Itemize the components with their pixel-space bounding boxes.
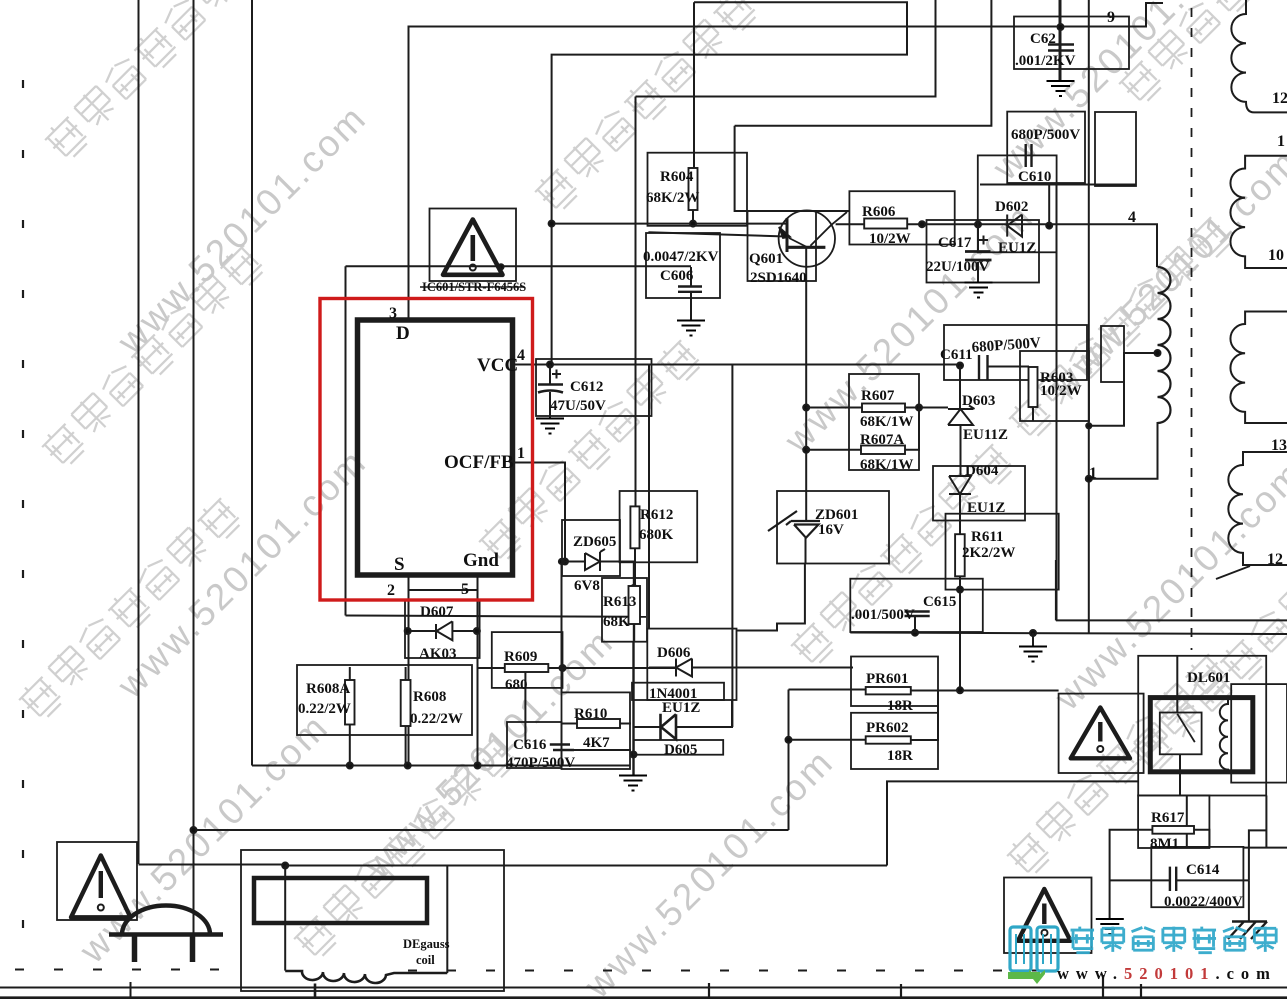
svg-text:PR601: PR601 (866, 671, 909, 687)
box C611 (944, 325, 1087, 380)
wire R603 bottom lead (1032, 407, 1034, 421)
svg-text:C606: C606 (660, 268, 694, 284)
box DL601 outer (1138, 656, 1266, 796)
wire base y=234 from C606 box corner (648, 232, 786, 236)
box warn triangle DL (1059, 694, 1144, 773)
degauss coil (285, 971, 447, 983)
ground R617 (1096, 919, 1124, 934)
svg-text:coil: coil (416, 953, 435, 967)
svg-text:D602: D602 (995, 199, 1028, 215)
secondary winding S3 (1230, 312, 1287, 424)
svg-text:R617: R617 (1151, 810, 1185, 826)
warning triangle bottom (1018, 889, 1071, 941)
wire emitter drop x=806 (805, 248, 807, 522)
box degauss outer (241, 850, 504, 991)
logo cjk text (1071, 927, 1277, 953)
ground C62 (1047, 81, 1075, 96)
wire D607 leads (406, 630, 477, 632)
node R604-railA (690, 221, 696, 227)
svg-text:S: S (394, 554, 405, 575)
wire R613 bottom to ground chain x=633 (632, 624, 635, 775)
svg-text:18R: 18R (887, 748, 913, 764)
node PR out (957, 687, 963, 693)
svg-text:R607: R607 (861, 388, 895, 404)
wire PR601 right lead (911, 690, 1059, 692)
svg-text:10: 10 (1268, 247, 1284, 264)
wire x=1088 long vertical (1088, 0, 1090, 634)
node degauss (282, 863, 288, 869)
red highlight box (320, 299, 533, 601)
diode D606 (676, 659, 692, 677)
box C614 (1151, 847, 1243, 907)
resistor R607A (861, 446, 905, 455)
svg-text:DL601: DL601 (1187, 670, 1230, 686)
wire y=184.5 run (980, 184, 1136, 186)
box C615 (850, 579, 983, 632)
svg-text:D607: D607 (420, 604, 454, 620)
wire y=830 long run (194, 829, 789, 831)
wire C617 to ground (977, 262, 979, 282)
svg-text:D603: D603 (962, 393, 995, 409)
node D605 left (631, 752, 637, 758)
diode D603 zener (948, 406, 975, 426)
resistor R608 (401, 680, 411, 726)
secondary winding S1 (1231, 0, 1287, 112)
warning triangle DL (1071, 708, 1130, 759)
svg-text:R612: R612 (640, 507, 673, 523)
wire C615 stem (914, 616, 916, 633)
diode D607 (436, 621, 452, 640)
svg-text:EU11Z: EU11Z (963, 427, 1008, 443)
diode D604 (949, 476, 971, 494)
plug symbol (109, 905, 223, 962)
wire dl corner stub (1243, 796, 1287, 848)
svg-text:C611: C611 (940, 347, 973, 363)
svg-text:C614: C614 (1186, 862, 1220, 878)
svg-text:470P/500V: 470P/500V (506, 755, 575, 771)
node R607 left (803, 405, 809, 411)
IC601 thick box (358, 320, 513, 575)
wire A rail y=224 right of Q601 (836, 223, 865, 225)
wire C615 bus y=632.9 (850, 633, 1287, 635)
svg-text:Gnd: Gnd (463, 550, 499, 571)
box C606 (646, 233, 720, 298)
wire ZD605 col drop x=561.5 (561, 562, 563, 693)
node R607 right (916, 405, 922, 411)
wire primary bottom to pin1 run (1089, 422, 1158, 479)
wire bottom S rail y=765.5 (252, 765, 630, 767)
box warn triangle bottom (1004, 878, 1092, 954)
page bottom edge (0, 996, 1287, 999)
node zd605 wire (559, 559, 564, 564)
svg-text:47U/50V: 47U/50V (550, 398, 606, 414)
svg-text:www.520101.com: www.520101.com (1057, 964, 1277, 983)
capacitor C610 (1026, 144, 1032, 167)
svg-text:68K/2W: 68K/2W (646, 190, 699, 206)
box R613 (602, 578, 647, 642)
resistor R604 (689, 168, 698, 210)
wire D602 node riser (1048, 185, 1050, 226)
svg-text:R606: R606 (862, 204, 896, 220)
svg-text:DEgauss: DEgauss (403, 937, 450, 951)
box degauss inner thick (254, 878, 427, 923)
wire y=615.5 run (346, 616, 647, 617)
wire zd601 bottom jog (737, 538, 806, 631)
transistor Q601 (779, 210, 847, 266)
node y830 start (191, 827, 197, 833)
wire x=936 top exit to y=96 run (636, 0, 936, 97)
svg-text:4: 4 (1128, 209, 1136, 226)
resistor R613 (629, 586, 641, 624)
wire ZD605 right lead to R612/R613 junction (601, 562, 634, 589)
svg-text:0.22/2W: 0.22/2W (410, 711, 463, 727)
wire PR602 right lead and tie (911, 691, 938, 741)
wire D606 left lead (649, 667, 676, 669)
svg-text:C615: C615 (923, 594, 956, 610)
wire bus2 vertical x=193 (193, 0, 195, 936)
capacitor C614 (1170, 867, 1176, 891)
svg-text:12: 12 (1272, 90, 1287, 107)
wire y=267 D-node run (346, 265, 692, 267)
resistor R608A (345, 680, 355, 725)
svg-text:680: 680 (505, 677, 528, 693)
node R611 bottom (957, 587, 963, 593)
box PR602 (851, 713, 938, 769)
box R617 (1138, 795, 1209, 848)
wire bus3 vertical x=252 (251, 0, 253, 766)
node FB zd605 (562, 559, 568, 565)
border tick x1141 (1140, 984, 1142, 999)
wire ZD605 left lead (565, 561, 585, 563)
svg-text:D: D (396, 323, 410, 344)
ground R613 chain (619, 776, 647, 791)
border tick x1103 (1102, 975, 1104, 999)
resistor R606 (864, 219, 907, 229)
box DL601 thick (1150, 698, 1253, 772)
wire collector feed x=735 (735, 126, 850, 211)
border tick x709 (708, 983, 710, 999)
border tick x901 (900, 984, 902, 999)
node pin1 (1086, 476, 1092, 482)
box D606 (647, 629, 736, 700)
svg-text:VCC: VCC (477, 355, 518, 376)
box C62 (1014, 17, 1129, 70)
node gnd5 bottom (475, 763, 481, 769)
box R610 (562, 692, 631, 769)
resistor R607 (862, 404, 905, 413)
svg-text:68K/1W: 68K/1W (860, 457, 913, 473)
resistor R617 (1152, 826, 1194, 834)
wire R608 leads (405, 667, 407, 766)
svg-text:68K/1W: 68K/1W (860, 414, 913, 430)
box Q601 label (748, 211, 817, 281)
node D607 right (474, 628, 480, 634)
bottom border (0, 987, 1287, 989)
node tap left (1086, 423, 1091, 428)
box R612 (620, 491, 698, 562)
wire FB pin1 to ZD605 (513, 463, 565, 562)
wire r604 top feed x=694 (693, 2, 695, 168)
svg-text:R610: R610 (574, 706, 607, 722)
box C616 (507, 722, 562, 768)
wire VCC rail y=364.5 (513, 364, 960, 366)
box R606 (849, 191, 954, 244)
svg-text:OCF/FB: OCF/FB (444, 452, 514, 473)
box R608A R608 (297, 665, 472, 735)
node gnd bus (1030, 630, 1036, 636)
svg-text:0.0047/2KV: 0.0047/2KV (643, 249, 719, 265)
capacitor C617 polarized (965, 252, 992, 261)
DL601 coil (1220, 698, 1228, 771)
svg-text:680K: 680K (639, 527, 674, 543)
svg-text:C62: C62 (1030, 31, 1056, 47)
resistor PR602 (866, 736, 911, 743)
wire degauss feed y=865 (139, 864, 286, 866)
svg-text:C616: C616 (513, 737, 547, 753)
capacitor C62 (1048, 45, 1074, 51)
wire pin2-pin5 link y=590 (409, 589, 478, 591)
svg-text:R608: R608 (413, 689, 446, 705)
box 1N4001 label (632, 683, 724, 700)
C617 plus (979, 236, 988, 245)
box transformer tap corner (1101, 326, 1124, 382)
wire plug right prong bus (193, 935, 195, 938)
svg-text:R604: R604 (660, 169, 694, 185)
wire R609 center drop to C616 (524, 672, 526, 744)
box D607 (405, 600, 480, 659)
wire R617 right lead (1194, 830, 1209, 847)
transformer primary winding (1158, 267, 1171, 423)
capacitor C611 (979, 355, 988, 380)
svg-text:0.22/2W: 0.22/2W (298, 701, 351, 717)
wire R607A leads and tie (806, 408, 919, 450)
warning triangle IC (443, 220, 503, 275)
svg-text:R607A: R607A (860, 432, 904, 448)
svg-text:.001/2KV: .001/2KV (1015, 53, 1076, 69)
node D607 left (405, 628, 411, 634)
svg-text:22U/100V: 22U/100V (926, 259, 990, 275)
diode D602 (1007, 215, 1022, 237)
wire PR601 left lead (789, 689, 866, 691)
node C617 railA (975, 221, 981, 227)
warning triangle left (71, 856, 131, 918)
wire R612 top stub (634, 548, 636, 588)
wire R617 left lead to ground (1110, 830, 1153, 919)
wire vcc loop via x=552 y=54.5 x=907 (552, 2, 907, 364)
wire degauss center tap (314, 984, 317, 999)
svg-text:13: 13 (1271, 437, 1287, 454)
svg-text:680P/500V: 680P/500V (1011, 127, 1080, 143)
box warn triangle IC (430, 209, 517, 282)
svg-text:9: 9 (1107, 9, 1115, 26)
wire D605 left lead (634, 726, 661, 728)
wire x=1055.9 riser (1055, 560, 1057, 620)
wire C62 thick drop (1059, 0, 1062, 80)
capacitor C616 (550, 745, 574, 751)
node VCC pin junction (547, 362, 553, 368)
transformer core dashed (1191, 8, 1193, 650)
wire degauss to relay (887, 781, 1138, 865)
resistor R609 (505, 664, 549, 672)
box DL601 contact (1160, 713, 1202, 755)
wire C606 top stub (690, 267, 692, 286)
left dashed rail (22, 80, 24, 950)
svg-text:8M1: 8M1 (1150, 836, 1179, 852)
wire R610 leads (562, 723, 632, 725)
svg-text:R609: R609 (504, 649, 537, 665)
capacitor C606 (678, 287, 702, 292)
wire x=732 mid vertical (731, 365, 733, 727)
resistor PR601 (866, 687, 911, 694)
node C62 top rail (1058, 24, 1064, 30)
wire R609 right node (560, 665, 566, 671)
svg-text:R613: R613 (603, 594, 636, 610)
svg-text:6V8: 6V8 (574, 578, 600, 594)
svg-text:C612: C612 (570, 379, 603, 395)
wire R607 leads (806, 407, 948, 409)
svg-text:1: 1 (1089, 465, 1097, 482)
wire D606 out to PR601 (692, 667, 853, 669)
wire bus ground stem (1032, 633, 1034, 646)
ground C617 (965, 283, 993, 298)
node r608 bottom (405, 763, 411, 769)
resistor R610 (577, 719, 620, 728)
wire y=620.4 lower run (1056, 619, 1287, 621)
node D602 out (1046, 223, 1052, 229)
box D605 label (634, 740, 724, 755)
resistor R603 (1029, 367, 1038, 407)
svg-text:2SD1640: 2SD1640 (750, 270, 807, 286)
wire R604 bottom junction stub (692, 210, 694, 224)
wire transformer mid tap y=353 (1089, 353, 1158, 426)
wire chassis drop (1248, 880, 1250, 921)
box R609 (492, 632, 563, 688)
wire R608A leads (349, 667, 351, 766)
svg-text:EU1Z: EU1Z (662, 700, 700, 716)
svg-text:Q601: Q601 (749, 251, 783, 267)
svg-text:D604: D604 (965, 463, 999, 479)
box R611 (946, 514, 1059, 590)
node R612 R613 (631, 585, 637, 591)
box top right small (1095, 112, 1136, 186)
svg-text:10/2W: 10/2W (1040, 383, 1082, 399)
node r608a bottom (347, 763, 353, 769)
logo book icon (1010, 927, 1058, 971)
wire S pin2 drop (408, 575, 410, 766)
svg-text:0.0022/400V: 0.0022/400V (1164, 894, 1243, 910)
wire C612 drop and ground stem (549, 365, 551, 419)
box D604 label (933, 466, 1025, 521)
box R603 (1020, 351, 1089, 421)
wire degauss loop (285, 866, 887, 974)
ground C615 bus (1019, 647, 1047, 662)
svg-text:EU1Z: EU1Z (998, 240, 1036, 256)
wire x=345 drop to S loop (345, 266, 347, 615)
wire C614 right riser (1249, 830, 1267, 880)
svg-text:1: 1 (1277, 133, 1285, 150)
svg-text:2: 2 (387, 582, 395, 599)
wire x=991 top exit to y=125.7 run (735, 0, 992, 126)
svg-text:ZD601: ZD601 (815, 507, 858, 523)
svg-text:D606: D606 (657, 645, 691, 661)
capacitor C612 polarized (538, 385, 563, 393)
diode D605 (661, 714, 677, 741)
svg-text:.001/500V: .001/500V (851, 607, 915, 623)
wire D603-D604-R611 chain x=960 (959, 366, 962, 691)
wire C617 drop (977, 224, 979, 250)
wire x=649 mid vertical (648, 365, 650, 629)
diode ZD601 zener (768, 511, 820, 538)
svg-text:4: 4 (517, 347, 525, 364)
node R607A left (803, 447, 809, 453)
wire R609-D606 run y=668 (548, 667, 676, 669)
winding S4 lead diagonal (1216, 566, 1250, 579)
svg-text:5: 5 (461, 581, 469, 598)
capacitor C615 (905, 612, 930, 617)
secondary winding S4 (1228, 452, 1287, 565)
node PR602 left (786, 737, 792, 743)
ground C612 (536, 419, 564, 434)
node y267 (498, 264, 503, 269)
resistor R612 (630, 506, 639, 548)
wire bus1 vertical x=138 (138, 0, 140, 864)
svg-text:1: 1 (517, 445, 525, 462)
box R607 R607A (849, 374, 919, 470)
wire DL601 contact chain (1177, 656, 1187, 847)
node C611 (957, 363, 963, 369)
svg-text:EU1Z: EU1Z (967, 500, 1005, 516)
resistor R611 (955, 534, 965, 576)
wire C606 bottom to ground (690, 292, 692, 320)
node railA R606 right (919, 221, 925, 227)
svg-text:2K2/2W: 2K2/2W (962, 545, 1015, 561)
C612 plus (552, 370, 561, 379)
svg-text:AK03: AK03 (419, 646, 457, 662)
box PR601 (851, 657, 938, 707)
wire C614 through (1110, 879, 1249, 881)
svg-text:R608A: R608A (306, 681, 350, 697)
box DL coil right (1231, 684, 1287, 783)
ground C606 (677, 321, 705, 336)
diode ZD605 zener (585, 549, 605, 571)
svg-text:3: 3 (389, 305, 397, 322)
svg-text:10/2W: 10/2W (869, 231, 911, 247)
svg-text:4K7: 4K7 (583, 735, 610, 751)
node C615 bottom (912, 630, 918, 636)
node vcc-riser railA (549, 221, 555, 227)
bottom dashed separator (15, 970, 1068, 971)
svg-text:PR602: PR602 (866, 720, 909, 736)
svg-text:18R: 18R (887, 698, 913, 714)
wire PR602 left lead (789, 739, 866, 741)
svg-text:ZD605: ZD605 (573, 534, 616, 550)
wire x=1056.5 drop (1056, 185, 1058, 621)
box ZD601 (777, 491, 889, 564)
node mid tap (1155, 350, 1161, 356)
wire x=636 long vertical (635, 97, 637, 508)
wire A rail R606 to transformer pin4 (907, 224, 1157, 267)
box warn triangle left (57, 842, 137, 920)
svg-text:C617: C617 (938, 235, 972, 251)
box C617 (927, 220, 1040, 283)
box C612 (536, 359, 652, 416)
border tick x130 (130, 982, 132, 999)
svg-text:68K: 68K (603, 614, 630, 630)
svg-text:D605: D605 (664, 742, 697, 758)
secondary winding S2 (1230, 156, 1287, 268)
svg-text:12: 12 (1267, 551, 1283, 568)
wire D605 right lead up (676, 700, 732, 727)
